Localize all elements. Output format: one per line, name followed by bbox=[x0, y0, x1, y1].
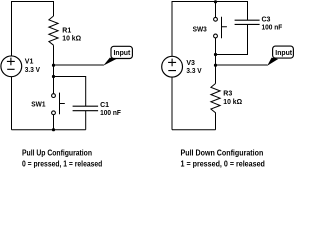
svg-text:Input: Input bbox=[275, 50, 292, 57]
svg-text:SW3: SW3 bbox=[193, 27, 207, 34]
svg-text:3.3 V: 3.3 V bbox=[25, 67, 40, 74]
svg-text:10 kΩ: 10 kΩ bbox=[223, 99, 242, 106]
svg-text:C3: C3 bbox=[262, 16, 271, 23]
svg-text:R3: R3 bbox=[223, 91, 232, 98]
svg-text:Pull Down Configuration: Pull Down Configuration bbox=[181, 149, 264, 158]
svg-text:V3: V3 bbox=[186, 60, 195, 67]
svg-text:100 nF: 100 nF bbox=[100, 110, 121, 117]
svg-text:10 kΩ: 10 kΩ bbox=[62, 36, 81, 43]
svg-text:3.3 V: 3.3 V bbox=[186, 68, 201, 75]
svg-text:Input: Input bbox=[114, 50, 131, 57]
svg-text:1 = pressed, 0 = released: 1 = pressed, 0 = released bbox=[181, 160, 265, 169]
svg-text:V1: V1 bbox=[25, 59, 34, 66]
svg-text:C1: C1 bbox=[100, 102, 109, 109]
svg-text:SW1: SW1 bbox=[31, 102, 45, 109]
svg-text:100 nF: 100 nF bbox=[262, 25, 283, 32]
svg-text:Pull Up Configuration: Pull Up Configuration bbox=[22, 149, 92, 158]
svg-text:R1: R1 bbox=[62, 28, 71, 35]
svg-text:0 = pressed, 1 = released: 0 = pressed, 1 = released bbox=[22, 160, 102, 169]
